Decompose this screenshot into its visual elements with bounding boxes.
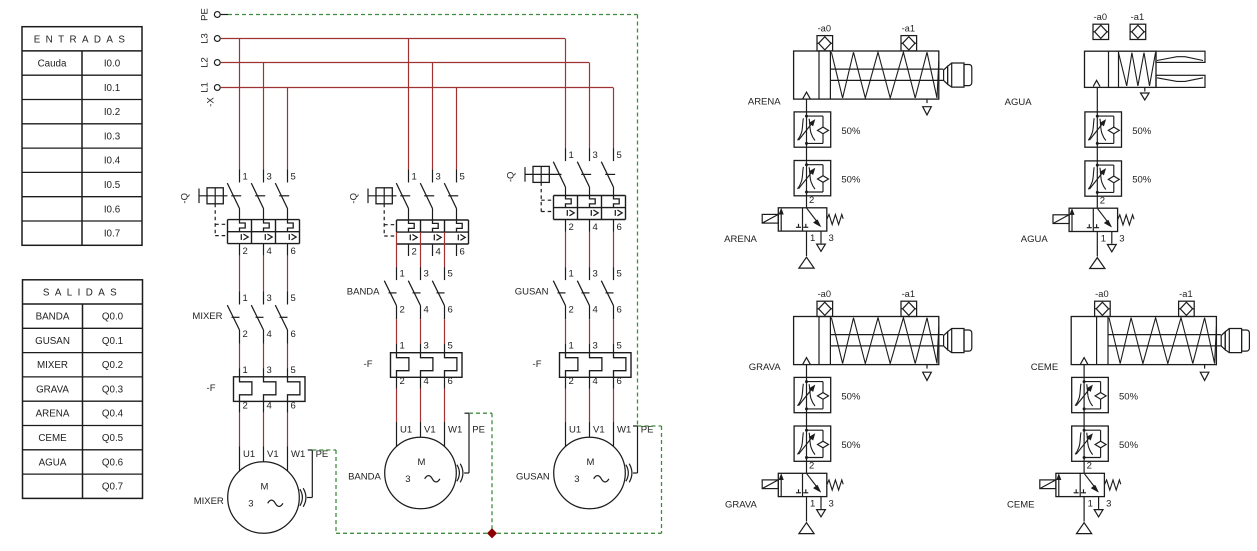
- svg-text:6: 6: [448, 376, 453, 387]
- svg-text:4: 4: [593, 304, 598, 315]
- svg-text:1: 1: [810, 233, 815, 244]
- svg-text:2: 2: [400, 376, 405, 387]
- svg-text:4: 4: [267, 329, 272, 340]
- svg-text:2: 2: [243, 400, 248, 411]
- svg-text:AGUA: AGUA: [39, 457, 67, 468]
- svg-text:3: 3: [829, 233, 834, 244]
- svg-text:Q0.5: Q0.5: [102, 433, 124, 444]
- svg-text:U1: U1: [569, 425, 581, 436]
- svg-text:3: 3: [829, 499, 834, 510]
- svg-text:Q0.6: Q0.6: [102, 457, 124, 468]
- svg-text:5: 5: [448, 341, 453, 352]
- svg-text:2: 2: [400, 304, 405, 315]
- svg-text:AGUA: AGUA: [1005, 97, 1033, 108]
- svg-text:4: 4: [436, 246, 441, 257]
- svg-text:6: 6: [617, 376, 622, 387]
- svg-text:U1: U1: [400, 425, 412, 436]
- svg-text:2: 2: [569, 304, 574, 315]
- svg-text:1: 1: [1101, 233, 1106, 244]
- svg-text:5: 5: [291, 293, 296, 304]
- svg-text:4: 4: [593, 376, 598, 387]
- svg-text:3: 3: [267, 365, 272, 376]
- svg-text:V1: V1: [267, 449, 279, 460]
- svg-text:PE: PE: [199, 8, 210, 21]
- svg-text:6: 6: [291, 400, 296, 411]
- svg-text:BANDA: BANDA: [36, 312, 70, 323]
- svg-text:5: 5: [617, 150, 622, 161]
- svg-text:50%: 50%: [1132, 174, 1152, 185]
- svg-text:-a1: -a1: [902, 289, 915, 299]
- svg-text:-Q: -Q: [349, 193, 360, 204]
- svg-text:CEME: CEME: [1007, 499, 1034, 510]
- svg-text:I0.3: I0.3: [104, 131, 121, 142]
- svg-text:3: 3: [1106, 499, 1111, 510]
- svg-text:PE: PE: [316, 449, 329, 460]
- svg-text:3: 3: [405, 474, 410, 485]
- svg-text:5: 5: [291, 365, 296, 376]
- svg-text:4: 4: [593, 222, 598, 233]
- svg-text:GUSAN: GUSAN: [515, 286, 549, 297]
- svg-text:U1: U1: [243, 449, 255, 460]
- svg-text:3: 3: [593, 150, 598, 161]
- svg-text:6: 6: [617, 222, 622, 233]
- svg-text:ENTRADAS: ENTRADAS: [34, 34, 131, 45]
- svg-text:50%: 50%: [841, 174, 861, 185]
- svg-text:I0.2: I0.2: [104, 107, 120, 118]
- svg-text:I0.7: I0.7: [104, 229, 120, 240]
- svg-text:GRAVA: GRAVA: [749, 362, 782, 373]
- svg-text:5: 5: [291, 172, 296, 183]
- svg-text:4: 4: [424, 376, 429, 387]
- svg-text:-a1: -a1: [1179, 289, 1192, 299]
- svg-text:-F: -F: [207, 383, 216, 394]
- svg-text:-a0: -a0: [818, 289, 831, 299]
- svg-text:1: 1: [569, 150, 574, 161]
- svg-text:2: 2: [569, 376, 574, 387]
- svg-text:3: 3: [574, 474, 579, 485]
- svg-text:Q0.7: Q0.7: [102, 482, 123, 493]
- svg-text:L3: L3: [199, 33, 210, 44]
- svg-text:3: 3: [248, 499, 253, 510]
- svg-text:W1: W1: [617, 425, 631, 436]
- svg-text:I0.0: I0.0: [104, 59, 121, 70]
- svg-text:3: 3: [593, 268, 598, 279]
- svg-text:ARENA: ARENA: [748, 97, 781, 108]
- svg-text:4: 4: [267, 246, 272, 257]
- svg-text:W1: W1: [448, 425, 462, 436]
- svg-text:AGUA: AGUA: [1021, 234, 1049, 245]
- svg-text:-F: -F: [533, 359, 542, 370]
- svg-text:3: 3: [1119, 233, 1124, 244]
- svg-text:1: 1: [243, 293, 248, 304]
- svg-text:Q0.0: Q0.0: [102, 312, 124, 323]
- svg-text:1: 1: [400, 341, 405, 352]
- svg-text:4: 4: [424, 304, 429, 315]
- svg-text:6: 6: [448, 304, 453, 315]
- svg-text:2: 2: [569, 222, 574, 233]
- svg-text:1: 1: [569, 341, 574, 352]
- svg-text:I0.1: I0.1: [104, 83, 120, 94]
- svg-text:-Q: -Q: [180, 193, 191, 204]
- svg-text:6: 6: [460, 246, 465, 257]
- svg-text:4: 4: [267, 400, 272, 411]
- svg-text:-a0: -a0: [1095, 289, 1108, 299]
- svg-text:-Q: -Q: [506, 172, 517, 183]
- svg-text:1: 1: [569, 268, 574, 279]
- svg-text:Q0.3: Q0.3: [102, 384, 124, 395]
- svg-text:1: 1: [400, 268, 405, 279]
- svg-text:3: 3: [593, 341, 598, 352]
- svg-text:6: 6: [617, 304, 622, 315]
- svg-text:2: 2: [243, 329, 248, 340]
- svg-text:Q0.4: Q0.4: [102, 409, 124, 420]
- svg-text:6: 6: [291, 329, 296, 340]
- svg-text:W1: W1: [291, 449, 305, 460]
- svg-text:V1: V1: [593, 425, 605, 436]
- svg-text:3: 3: [267, 172, 272, 183]
- svg-text:I0.6: I0.6: [104, 204, 121, 215]
- svg-text:PE: PE: [472, 425, 485, 436]
- svg-text:5: 5: [617, 341, 622, 352]
- svg-text:2: 2: [809, 461, 814, 472]
- svg-text:SALIDAS: SALIDAS: [43, 288, 122, 299]
- svg-text:1: 1: [243, 172, 248, 183]
- svg-text:GRAVA: GRAVA: [725, 499, 758, 510]
- svg-text:3: 3: [424, 341, 429, 352]
- svg-text:6: 6: [291, 246, 296, 257]
- svg-text:5: 5: [460, 172, 465, 183]
- svg-text:M: M: [261, 481, 269, 492]
- svg-text:3: 3: [436, 172, 441, 183]
- svg-text:2: 2: [243, 246, 248, 257]
- svg-text:M: M: [418, 457, 426, 468]
- svg-text:I0.4: I0.4: [104, 156, 121, 167]
- svg-text:MIXER: MIXER: [37, 360, 68, 371]
- svg-text:GUSAN: GUSAN: [35, 336, 70, 347]
- svg-text:3: 3: [267, 293, 272, 304]
- svg-text:50%: 50%: [841, 126, 861, 137]
- svg-text:I0.5: I0.5: [104, 180, 121, 191]
- svg-text:BANDA: BANDA: [348, 471, 381, 482]
- svg-text:2: 2: [809, 195, 814, 206]
- svg-text:-a1: -a1: [1131, 12, 1144, 22]
- svg-text:-a0: -a0: [818, 23, 831, 33]
- svg-text:L1: L1: [199, 82, 210, 93]
- svg-text:CEME: CEME: [38, 433, 67, 444]
- svg-text:50%: 50%: [841, 392, 861, 403]
- svg-text:2: 2: [412, 246, 417, 257]
- svg-text:2: 2: [1087, 461, 1092, 472]
- svg-text:-a1: -a1: [902, 23, 915, 33]
- svg-text:50%: 50%: [841, 440, 861, 451]
- svg-text:2: 2: [1100, 196, 1105, 207]
- svg-text:ARENA: ARENA: [36, 409, 70, 420]
- svg-text:3: 3: [424, 268, 429, 279]
- svg-text:BANDA: BANDA: [347, 286, 380, 297]
- svg-text:Q0.1: Q0.1: [102, 336, 123, 347]
- svg-text:50%: 50%: [1119, 392, 1139, 403]
- svg-text:ARENA: ARENA: [724, 234, 757, 245]
- svg-text:5: 5: [448, 268, 453, 279]
- svg-text:1: 1: [243, 365, 248, 376]
- svg-text:CEME: CEME: [1031, 362, 1058, 373]
- svg-text:-F: -F: [364, 359, 373, 370]
- svg-text:50%: 50%: [1119, 440, 1139, 451]
- svg-text:M: M: [587, 457, 595, 468]
- svg-text:-a0: -a0: [1094, 12, 1107, 22]
- svg-text:1: 1: [1088, 499, 1093, 510]
- svg-text:5: 5: [617, 268, 622, 279]
- svg-text:-X: -X: [206, 97, 217, 107]
- svg-text:MIXER: MIXER: [194, 496, 224, 507]
- svg-text:MIXER: MIXER: [192, 311, 222, 322]
- svg-text:50%: 50%: [1132, 126, 1152, 137]
- svg-text:Q0.2: Q0.2: [102, 360, 123, 371]
- svg-text:Cauda: Cauda: [38, 59, 67, 70]
- svg-text:V1: V1: [424, 425, 436, 436]
- svg-text:1: 1: [412, 172, 417, 183]
- svg-text:1: 1: [810, 499, 815, 510]
- svg-text:GRAVA: GRAVA: [36, 384, 69, 395]
- svg-text:L2: L2: [199, 57, 210, 68]
- svg-text:GUSAN: GUSAN: [516, 471, 550, 482]
